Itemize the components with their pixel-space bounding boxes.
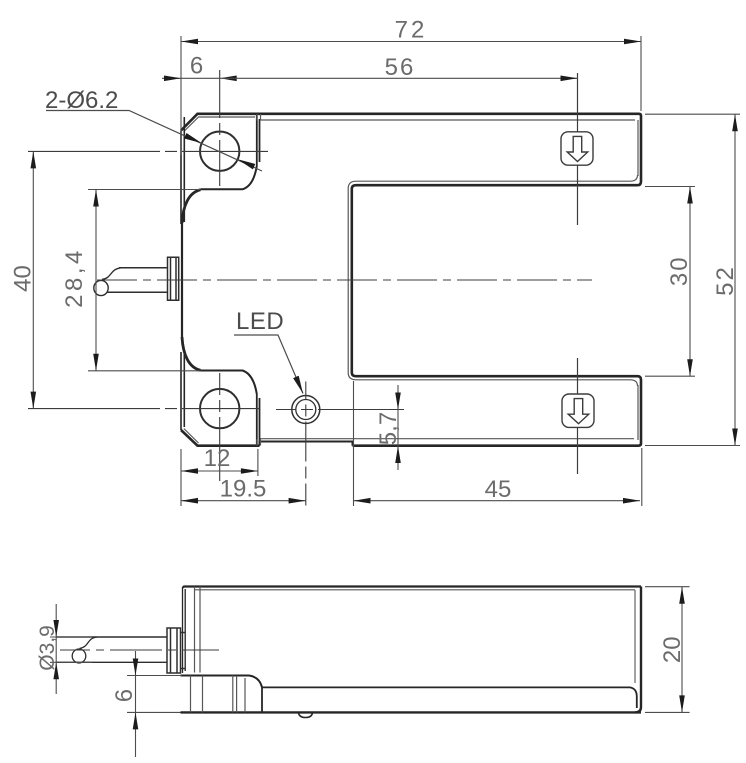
svg-text:30: 30 (666, 255, 693, 286)
tab top inner line (199, 116, 255, 118)
svg-text:Ø3,9: Ø3,9 (36, 625, 59, 671)
bottom tab top edge (201, 371, 257, 395)
svg-text:5,7: 5,7 (375, 412, 402, 445)
side bottom bump (299, 712, 313, 717)
left edge middle (181, 222, 183, 338)
bottom tab right edge (257, 394, 260, 445)
svg-text:LED: LED (236, 308, 284, 335)
cable flange top view (168, 257, 179, 300)
dimension 56 (220, 77, 578, 79)
dimension 52 (734, 114, 736, 445)
side cable centre line (60, 649, 219, 651)
side right edge (635, 587, 641, 713)
svg-text:12: 12 (204, 445, 231, 472)
body outline: top-right corner and top arm right edge (638, 114, 642, 185)
dimension 19.5 (181, 500, 306, 502)
bottom inner chamfer line (260, 438, 635, 440)
beam icon box top (561, 132, 593, 165)
left edge upper double (181, 117, 184, 224)
dimension 12 (181, 470, 258, 472)
dimension 6 top (162, 77, 220, 79)
side top inner line (195, 589, 635, 591)
cable end ellipse side view (72, 649, 86, 663)
beam icon arrow bottom (568, 399, 589, 424)
optical axis vertical top (577, 73, 579, 225)
top arm inner top line (262, 119, 635, 121)
dimension diam 3.9 (55, 604, 57, 694)
left edge lower double (181, 352, 184, 430)
dimension 5.7 (397, 385, 399, 470)
centre line horizontal top view (97, 279, 592, 281)
side flange (167, 628, 181, 673)
side body top edge (183, 587, 641, 588)
top tab bottom edge (201, 166, 257, 189)
beam icon box bottom (562, 394, 594, 427)
side cable (56, 637, 167, 662)
svg-text:40: 40 (10, 265, 37, 292)
dimension 28.4 (95, 190, 97, 371)
side bracket block top edge (181, 676, 263, 688)
LED window circles (292, 396, 320, 424)
side bracket block inner verticals (191, 676, 246, 713)
dimension 6 side (135, 651, 137, 757)
slot top thin offset line (348, 175, 637, 386)
side bottom edge (181, 711, 642, 713)
dimension 30 (689, 187, 691, 377)
hole centre cross lines (28, 150, 268, 152)
lower fillet from left edge to bottom tab top (182, 337, 201, 370)
body outline: top edge (181, 114, 639, 131)
svg-text:52: 52 (712, 265, 739, 296)
svg-text:72: 72 (395, 17, 428, 44)
bottom arm right edge (638, 376, 642, 446)
dimension 20 (681, 587, 683, 713)
cable top view (107, 268, 168, 293)
svg-text:6: 6 (111, 689, 138, 702)
mounting hole bottom (200, 389, 239, 428)
LED centre cross (276, 409, 404, 411)
side inner verticals (bracket face edges) (195, 587, 201, 673)
svg-text:45: 45 (485, 476, 512, 503)
dimension 72 (181, 41, 641, 43)
svg-text:20: 20 (659, 636, 686, 663)
top step marks (257, 114, 262, 121)
svg-text:56: 56 (385, 54, 416, 81)
cable end ellipse top view (94, 280, 108, 295)
side left edge (183, 587, 186, 673)
mounting hole top (200, 132, 239, 171)
arms right inner line (637, 120, 639, 440)
side flange inner plate (181, 633, 185, 669)
svg-text:28,4: 28,4 (61, 247, 88, 308)
top-left chamfer inner line (184, 117, 199, 444)
slot bottom edge (bottom arm top) (356, 375, 638, 378)
side right inner line (634, 590, 636, 683)
beam icon arrow top (567, 136, 588, 161)
svg-text:19.5: 19.5 (220, 476, 267, 503)
side bracket block right edge (261, 687, 263, 712)
top tab right edge (257, 115, 260, 166)
side cable break (80, 637, 98, 649)
dimension 40 (32, 151, 34, 408)
dimension 45 (354, 500, 641, 502)
upper fillet from tab bottom to left edge (182, 190, 201, 223)
cable break top view (102, 268, 121, 280)
bottom step marks (257, 439, 261, 446)
slot top edge (arm bottom) (352, 185, 638, 376)
optical axis vertical bottom (577, 358, 579, 474)
tab bottom edge (181, 430, 260, 446)
svg-text:6: 6 (190, 53, 203, 80)
side body mid bottom line (262, 687, 637, 708)
bottom arm bottom edge (353, 444, 639, 447)
recessed bottom edge (260, 442, 353, 446)
